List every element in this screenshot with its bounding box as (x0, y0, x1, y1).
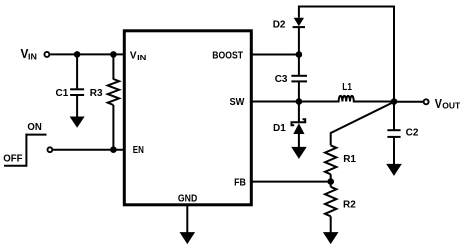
label R1 (343, 154, 356, 165)
label R3 (90, 88, 103, 99)
wire SW node to D1 (298, 102, 300, 124)
wire FB (251, 181, 330, 183)
wire SW (251, 96, 394, 102)
svg-text:SW: SW (230, 97, 245, 108)
wire C2 to ground (393, 138, 395, 165)
svg-text:R3: R3 (90, 88, 103, 99)
wire C1 lower (76, 96, 78, 118)
pin FB label (234, 177, 246, 188)
svg-text:ON: ON (27, 122, 41, 133)
ground (C1) (70, 117, 85, 128)
wire D1 to ground (298, 134, 300, 147)
pin BOOST label (212, 50, 243, 61)
node VOUT junction (391, 98, 398, 105)
switch ON/OFF (3, 122, 52, 167)
label C3 (275, 74, 288, 85)
pin EN label (133, 145, 144, 156)
ground (C2) (386, 164, 402, 176)
wire C3 to SW node (298, 82, 300, 102)
svg-text:V: V (435, 96, 442, 111)
node R3 tap (110, 51, 117, 58)
svg-text:C1: C1 (56, 88, 69, 99)
svg-text:IN: IN (28, 52, 37, 62)
ground (GND pin) (180, 232, 196, 244)
wire BOOST (251, 54, 299, 56)
wire D2 to BOOST node (298, 27, 300, 54)
terminal VIN (21, 46, 50, 62)
svg-text:D2: D2 (273, 20, 286, 31)
wire VOUT node to C2 (393, 102, 395, 130)
svg-text:IN: IN (137, 53, 146, 62)
svg-text:EN: EN (133, 145, 144, 156)
svg-text:GND: GND (178, 194, 197, 205)
resistor R3 (108, 79, 119, 105)
wire C1 upper (76, 54, 78, 88)
svg-text:C2: C2 (406, 128, 419, 139)
label C2 (406, 128, 419, 139)
node SW/C3/D1 junction (296, 98, 303, 105)
diode D1 (schottky) (292, 119, 306, 134)
wire feedback diagonal (331, 102, 394, 145)
wire VOUT node to terminal (394, 101, 423, 103)
node FB/R1/R2 junction (327, 178, 334, 185)
wire BOOST node to C3 (298, 55, 300, 76)
label L1 (342, 82, 352, 93)
wire R2 to ground (330, 216, 332, 232)
wire R3 upper (112, 54, 114, 79)
pin SW label (230, 97, 245, 108)
node R3/EN junction (110, 146, 117, 153)
svg-text:V: V (130, 51, 137, 62)
label C1 (56, 88, 69, 99)
diode D2 (293, 18, 305, 27)
resistor R1 (325, 145, 336, 174)
capacitor C3 (291, 76, 307, 82)
terminal VOUT (424, 96, 461, 111)
svg-text:BOOST: BOOST (212, 50, 243, 61)
ground (R2) (323, 232, 339, 244)
wire R3 lower (112, 105, 114, 150)
label D2 (273, 20, 286, 31)
svg-text:D1: D1 (273, 123, 286, 134)
ground (D1) (291, 147, 307, 159)
svg-text:OFF: OFF (3, 153, 22, 164)
label R2 (343, 200, 356, 211)
capacitor C1 (70, 89, 84, 95)
svg-text:OUT: OUT (442, 101, 461, 111)
svg-text:R1: R1 (343, 154, 356, 165)
svg-text:R2: R2 (343, 200, 356, 211)
capacitor C2 (387, 130, 400, 137)
wire top rail (299, 7, 394, 102)
node C1 tap (74, 51, 81, 58)
wire GND pin (186, 205, 188, 233)
wire VIN terminal to IC (50, 53, 124, 55)
svg-text:C3: C3 (275, 74, 288, 85)
resistor R2 (325, 187, 336, 217)
node BOOST/D2/C3 junction (296, 51, 303, 58)
wire R1 to FB node (330, 174, 332, 187)
pin VIN label (130, 51, 147, 63)
label D1 (273, 123, 286, 134)
svg-text:FB: FB (234, 177, 246, 188)
svg-text:L1: L1 (342, 82, 352, 93)
pin GND label (178, 194, 197, 205)
IC U1 box (124, 31, 251, 205)
wire EN (53, 149, 124, 151)
